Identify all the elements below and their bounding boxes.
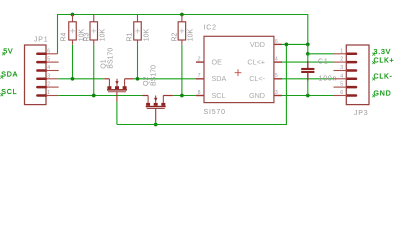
svg-text:BS170: BS170 [150, 65, 157, 86]
wire VDD row (IC2 pin6 to 5V rail corner) [282, 43, 308, 45]
svg-text:3: 3 [275, 90, 278, 96]
svg-text:2: 2 [47, 82, 50, 88]
IC2 origin cross [235, 69, 242, 76]
IC2 pin 4 CLK+ [247, 57, 282, 67]
svg-text:5: 5 [275, 73, 278, 79]
net label SDA [0, 72, 18, 79]
svg-text:Q2: Q2 [143, 77, 150, 86]
svg-text:3.3V: 3.3V [374, 49, 392, 56]
svg-text:10K: 10K [143, 29, 150, 42]
net label SCL [0, 89, 17, 96]
svg-text:JP3: JP3 [354, 110, 368, 117]
svg-text:3: 3 [340, 65, 343, 71]
svg-text:10K: 10K [188, 29, 195, 42]
svg-text:SDA: SDA [1, 72, 18, 79]
IC2 pin 6 VDD [250, 39, 282, 49]
svg-text:CL<-: CL<- [249, 74, 265, 83]
svg-text:6: 6 [275, 39, 278, 45]
svg-text:5V: 5V [3, 48, 13, 55]
JP1 pin 5 [37, 57, 58, 63]
resistor R1 [134, 15, 142, 45]
JP1 pin 4 [37, 65, 58, 71]
svg-text:8: 8 [198, 90, 201, 96]
wire 5V top rail [58, 15, 308, 54]
junction GND / C1 [306, 94, 310, 98]
svg-text:R3: R3 [84, 32, 91, 41]
svg-text:SDA: SDA [212, 74, 227, 83]
junction 5V rail / R4 [71, 13, 75, 17]
JP1 pin 1 [37, 90, 58, 96]
net label GND [372, 90, 391, 97]
wire GND row (IC2 pin3 to JP3 pin6) [282, 95, 334, 97]
JP1 pin 6 [37, 48, 57, 54]
net label 3.3V [372, 49, 391, 56]
wire R1 to SDA [137, 45, 139, 79]
wire CLK+ row (IC2 pin4 to JP3 pin2) [282, 61, 334, 63]
svg-text:6: 6 [47, 48, 50, 54]
wire Q1 gate to 3.3V rail [116, 92, 118, 124]
wire 3.3V bottom rail (gates to VDD) [117, 44, 287, 124]
IC2 pin 3 GND [249, 90, 282, 100]
JP1 pin 2 [37, 82, 58, 88]
wire R3 to SCL [93, 45, 95, 96]
wire CLK- row (IC2 pin5 to JP3 pin4) [282, 78, 334, 80]
svg-text:4: 4 [275, 57, 278, 63]
svg-text:7: 7 [198, 73, 201, 79]
resistor R4 [69, 15, 77, 45]
wire R2 to SCL [181, 45, 183, 96]
svg-text:6: 6 [340, 90, 343, 96]
transistor Q1 (BS170) [104, 79, 134, 92]
svg-text:10K: 10K [100, 29, 107, 42]
JP1 pin 3 [37, 73, 58, 79]
svg-text:2: 2 [198, 57, 201, 63]
junction SDA / R4 [71, 77, 75, 81]
svg-text:IC2: IC2 [204, 25, 217, 32]
wire Q2 gate to 3.3V rail [155, 109, 157, 125]
junction SCL / R3 [92, 94, 96, 98]
svg-text:BS170: BS170 [108, 48, 115, 69]
svg-text:C1: C1 [318, 58, 329, 65]
svg-text:1: 1 [340, 48, 343, 54]
capacitor C1 [301, 54, 314, 96]
IC2 pin 5 CLK- [249, 73, 282, 83]
svg-text:SCL: SCL [1, 89, 17, 96]
JP3 pin 2 [334, 57, 357, 63]
JP3 pin 5 [334, 82, 357, 88]
wire rail drop to 3.3V row [307, 44, 309, 53]
junction 3.3V rail / Q2 gate [154, 123, 158, 127]
svg-text:SCL: SCL [212, 91, 226, 100]
net label 5V [2, 48, 13, 55]
junction SCL / R2 [180, 94, 184, 98]
svg-text:CLK-: CLK- [374, 74, 393, 81]
junction 5V rail / R2 [180, 13, 184, 17]
junction VDD / rail drop [306, 43, 310, 47]
net label CLK- [372, 74, 392, 81]
svg-text:4: 4 [47, 65, 50, 71]
svg-text:JP1: JP1 [34, 37, 48, 44]
svg-text:R2: R2 [172, 32, 179, 41]
IC2 Si570 box [204, 36, 274, 102]
wire 3.3V row to JP3 pin1 [308, 53, 334, 55]
IC2 pin 2 OE [196, 57, 222, 67]
wire SDA (JP1 pin3 to IC2 SDA) [58, 78, 104, 80]
svg-text:4: 4 [340, 73, 343, 79]
svg-text:1: 1 [47, 90, 50, 96]
JP3 pin 1 [334, 48, 357, 54]
junction 3.3V row [306, 52, 310, 56]
JP3 pin 4 [334, 73, 357, 79]
net label CLK+ [372, 57, 394, 64]
JP3 pin 6 [334, 90, 357, 96]
svg-text:Q1: Q1 [100, 59, 107, 68]
resistor R2 [178, 15, 186, 45]
svg-text:5: 5 [47, 57, 50, 63]
svg-text:GND: GND [374, 90, 392, 97]
svg-text:3: 3 [47, 73, 50, 79]
wire SCL (JP1 pin1 to IC2 SCL) [58, 95, 142, 97]
svg-text:5: 5 [340, 82, 343, 88]
IC2 pin 8 SCL [196, 90, 225, 100]
IC2 pin 7 SDA [196, 73, 226, 83]
wire R4 to SDA [72, 45, 74, 79]
JP3 pin 3 [334, 65, 357, 71]
svg-text:CL<+: CL<+ [247, 58, 265, 67]
svg-text:CLK+: CLK+ [374, 57, 395, 64]
junction SDA / R1 [136, 77, 140, 81]
connector JP3 [346, 45, 369, 105]
junction VDD / gate rail [285, 43, 289, 47]
svg-text:SI570: SI570 [204, 109, 226, 116]
connector JP1 [25, 45, 47, 105]
svg-text:GND: GND [249, 91, 265, 100]
svg-text:R4: R4 [61, 32, 68, 41]
resistor R3 [90, 15, 98, 45]
svg-text:2: 2 [340, 57, 343, 63]
transistor Q2 (BS170) [142, 96, 172, 109]
svg-text:R1: R1 [126, 32, 133, 41]
svg-text:OE: OE [212, 58, 223, 67]
svg-text:VDD: VDD [250, 40, 265, 49]
